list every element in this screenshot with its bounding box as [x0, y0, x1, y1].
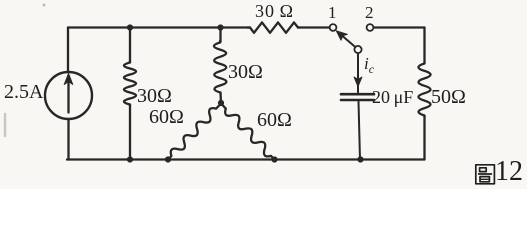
- current source I1 2.5A circle: [45, 72, 92, 119]
- faint scan streak left edge: [4, 114, 7, 136]
- label 60ohm right: [257, 109, 292, 132]
- resistor 30ohm top horizontal: [247, 22, 300, 32]
- wire left vertical lower: [67, 119, 69, 160]
- capacitor C 20uF bottom plate: [341, 99, 374, 102]
- wire capacitor branch lower: [359, 101, 361, 160]
- junction dot Y center: [218, 100, 224, 106]
- wire bottom horizontal: [67, 158, 425, 160]
- label 30ohm branch A: [137, 85, 172, 108]
- label 1: [328, 3, 337, 23]
- junction dot bottom Y left: [165, 156, 171, 162]
- label figure 12: [495, 156, 523, 188]
- switch pivot circle: [354, 46, 361, 53]
- junction dot top branch A: [127, 24, 133, 30]
- label 50ohm: [431, 86, 466, 109]
- wire right vertical upper: [423, 28, 425, 64]
- wire top-left horizontal (source to node-1): [68, 26, 250, 28]
- resistor R 50ohm right vertical: [418, 62, 430, 117]
- wire right vertical lower: [423, 116, 425, 160]
- resistor 30ohm vertical branch A: [124, 61, 136, 106]
- wire branch B to Y center: [219, 93, 222, 103]
- label 2.5A: [4, 81, 43, 104]
- wire branch A vertical top (x=130): [129, 28, 131, 63]
- label 60ohm left: [149, 106, 184, 129]
- current source arrow (up): [67, 83, 69, 113]
- node 1 terminal circle: [330, 24, 337, 31]
- wire left vertical upper: [67, 28, 69, 72]
- wire branch B vertical top (x=220): [219, 28, 221, 43]
- switch arrowhead toward node 1: [336, 31, 347, 40]
- current arrow i_c down: [354, 77, 362, 87]
- wire capacitor branch upper: [357, 53, 359, 92]
- junction dot top branch B: [217, 24, 223, 30]
- switch arm wire: [341, 35, 355, 47]
- faint scan dot top left: [43, 4, 46, 7]
- junction dot bottom capacitor: [357, 156, 363, 162]
- figure label glyph (CJK): [476, 165, 495, 184]
- label 30ohm top: [255, 1, 294, 22]
- node 2 terminal circle: [367, 24, 374, 31]
- resistor 30ohm vertical branch B: [214, 41, 226, 94]
- wire top to node 1: [298, 26, 330, 28]
- capacitor C 20uF top plate: [341, 93, 374, 96]
- junction dot bottom Y right: [271, 156, 277, 162]
- label 20uF: [372, 87, 413, 108]
- label i_c: [364, 54, 374, 77]
- label 2: [365, 3, 374, 23]
- label 30ohm branch B: [228, 61, 263, 84]
- wire top-right (node 2 to right branch): [374, 26, 425, 28]
- resistor 60ohm Y right leg: [221, 104, 275, 160]
- junction dot bottom branch A: [127, 156, 133, 162]
- wire branch A vertical bottom: [129, 105, 131, 160]
- resistor 60ohm Y left leg: [168, 104, 221, 160]
